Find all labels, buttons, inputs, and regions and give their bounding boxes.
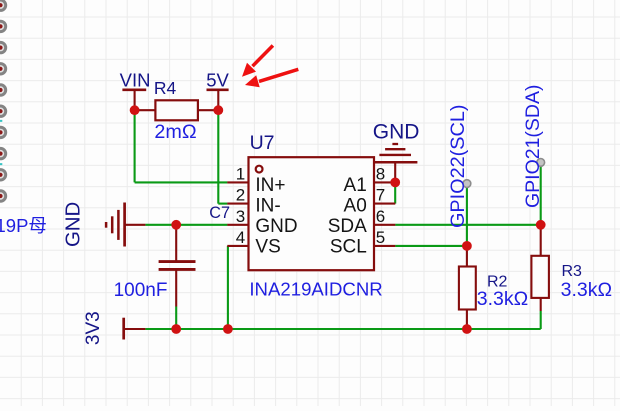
svg-text:6: 6 — [376, 207, 385, 226]
junction SCL-R2 — [462, 241, 472, 251]
svg-text:7: 7 — [376, 186, 385, 205]
wire SDA — [395, 224, 541, 226]
wire R3 bottom — [540, 311, 542, 329]
capacitor C7 — [159, 225, 196, 307]
net flag VIN — [122, 90, 146, 110]
svg-text:3V3: 3V3 — [83, 311, 104, 345]
svg-text:2mΩ: 2mΩ — [154, 121, 196, 143]
svg-text:5V: 5V — [206, 69, 229, 90]
svg-text:SDA: SDA — [328, 216, 367, 237]
svg-text:SCL: SCL — [330, 236, 367, 257]
svg-text:GPIO21(SDA): GPIO21(SDA) — [522, 85, 544, 209]
svg-text:3: 3 — [236, 207, 245, 226]
svg-text:GPIO22(SCL): GPIO22(SCL) — [447, 105, 469, 228]
svg-text:19P母: 19P母 — [0, 215, 47, 236]
wire 5V vertical — [217, 109, 219, 204]
svg-text:U7: U7 — [250, 132, 275, 154]
net port GPIO21(SDA) — [537, 159, 545, 167]
junction SDA-R3 — [536, 220, 546, 230]
wire GPIO21 vertical — [540, 163, 542, 225]
wire pin8 to pin7 — [394, 182, 396, 203]
net port GPIO22(SCL) — [463, 180, 471, 188]
junction VIN-R4 — [130, 105, 140, 115]
svg-text:A1: A1 — [344, 175, 367, 196]
wire 3V3 bottom rail — [145, 328, 540, 330]
svg-text:VIN: VIN — [120, 69, 151, 90]
ground GND top (flipped) — [374, 144, 418, 182]
wire GPIO22 vertical — [466, 184, 468, 246]
annotation arrow 1 — [242, 46, 273, 77]
wire pin4 vertical — [227, 246, 229, 329]
svg-text:4: 4 — [236, 228, 245, 247]
resistor R4 — [135, 100, 219, 120]
ground GND left — [106, 203, 145, 247]
svg-text:VS: VS — [255, 236, 280, 257]
svg-text:8: 8 — [376, 164, 385, 183]
connector 19P female header pin pads — [0, 0, 6, 201]
svg-text:3.3kΩ: 3.3kΩ — [477, 288, 528, 310]
net flag 3V3 — [124, 318, 146, 340]
junction pin4-3V3 — [223, 324, 233, 334]
resistor R2 — [459, 246, 476, 329]
svg-text:A0: A0 — [344, 196, 367, 217]
wire VIN vertical — [134, 109, 136, 182]
junction 5V-R4 — [213, 105, 223, 115]
svg-text:1: 1 — [236, 164, 245, 183]
annotation arrow 2 — [245, 69, 298, 87]
svg-text:2: 2 — [236, 186, 245, 205]
svg-text:3.3kΩ: 3.3kΩ — [561, 279, 612, 301]
svg-text:5: 5 — [376, 228, 385, 247]
svg-text:GND: GND — [373, 121, 420, 144]
wire SCL — [395, 245, 467, 247]
svg-text:IN+: IN+ — [255, 175, 285, 196]
op IC U7 body — [227, 157, 395, 270]
wire 5V to pin2 — [218, 203, 227, 205]
resistor R3 — [531, 225, 549, 311]
junction pin8-GND — [390, 178, 400, 188]
junction GND-C7 — [171, 220, 181, 230]
net flag 5V — [207, 90, 229, 110]
svg-text:GND: GND — [62, 202, 84, 247]
svg-text:GND: GND — [255, 216, 297, 237]
wire GND to pin3 — [145, 224, 227, 226]
svg-text:R3: R3 — [562, 263, 583, 280]
svg-text:100nF: 100nF — [114, 280, 168, 301]
svg-text:C7: C7 — [209, 204, 230, 222]
wire C7 lower — [175, 307, 177, 330]
junction R2-3V3 — [462, 324, 472, 334]
junction C7-3V3 — [171, 324, 181, 334]
svg-text:INA219AIDCNR: INA219AIDCNR — [249, 279, 382, 300]
svg-text:R4: R4 — [154, 78, 177, 98]
wire VIN to pin1 — [135, 181, 228, 183]
svg-text:IN-: IN- — [255, 196, 280, 217]
